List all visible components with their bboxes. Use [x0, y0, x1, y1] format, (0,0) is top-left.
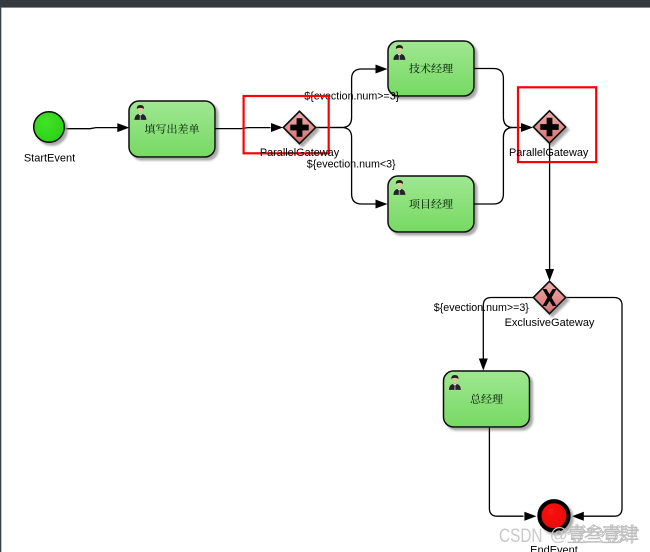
- svg-text:StartEvent: StartEvent: [24, 153, 75, 165]
- StartEvent label: [24, 153, 75, 165]
- parallel gateway 2 diamond: [533, 111, 565, 143]
- wire ExclusiveGateway right loop to EndEvent: [566, 298, 622, 517]
- wire ExclusiveGateway to 总经理: [483, 298, 533, 360]
- arrowhead into EndEvent from right: [572, 512, 584, 521]
- exclusive gateway diamond: [533, 281, 565, 313]
- EndEvent circle: [539, 501, 568, 530]
- wire StartEvent to task 填写出差单: [66, 128, 119, 129]
- wire 总经理 down to EndEvent: [489, 428, 523, 516]
- arrowhead into 填写出差单: [117, 123, 129, 132]
- EndEvent label: [530, 545, 578, 552]
- arrowhead into ExclusiveGateway: [545, 269, 554, 281]
- condition label ${evection.num<3} lower: [307, 159, 396, 171]
- svg-text:@: @: [550, 524, 568, 544]
- task 技术经理: [388, 41, 474, 96]
- top toolbar bar: [0, 0, 650, 8]
- task 项目经理: [388, 176, 474, 232]
- wire 项目经理 to ParallelGateway2: [474, 128, 521, 205]
- label ParallelGateway (1): [260, 147, 340, 159]
- arrowhead into ParallelGateway2: [521, 123, 533, 132]
- condition label ${evection.num>=3} at exclusive gateway: [434, 302, 530, 314]
- wire ParallelGateway2 down to ExclusiveGateway: [549, 143, 551, 269]
- watermark CSDN @壹叁壹肆: [499, 524, 639, 547]
- svg-text:${evection.num>=3}: ${evection.num>=3}: [434, 302, 530, 314]
- arrowhead into ParallelGateway1: [271, 123, 283, 132]
- svg-text:${evection.num<3}: ${evection.num<3}: [307, 159, 396, 171]
- arrowhead into 总经理: [479, 359, 488, 371]
- parallel gateway 1 diamond: [283, 111, 315, 143]
- arrowhead into EndEvent from left: [524, 512, 536, 521]
- red selection rectangle around ParallelGateway1: [244, 96, 329, 153]
- wire ParallelGateway1 to 项目经理 (lower branch): [316, 128, 376, 205]
- arrowhead into 项目经理: [376, 200, 388, 209]
- wire ParallelGateway1 to 技术经理 (upper branch): [316, 69, 376, 128]
- label ExclusiveGateway: [505, 317, 595, 329]
- red selection rectangle around ParallelGateway2: [518, 87, 596, 162]
- left border line: [0, 8, 1, 552]
- label ParallelGateway (2): [509, 147, 589, 159]
- svg-text:ParallelGateway: ParallelGateway: [260, 147, 340, 159]
- task 填写出差单: [129, 101, 215, 157]
- task 总经理: [444, 371, 530, 427]
- arrowhead into 技术经理: [376, 65, 388, 74]
- svg-text:CSDN: CSDN: [499, 526, 543, 547]
- wire 填写出差单 to ParallelGateway1: [215, 128, 270, 129]
- StartEvent circle: [34, 112, 65, 143]
- wire 技术经理 to ParallelGateway2: [474, 69, 521, 128]
- condition label ${evection.num>=3} upper: [304, 90, 400, 102]
- svg-text:ExclusiveGateway: ExclusiveGateway: [505, 317, 595, 329]
